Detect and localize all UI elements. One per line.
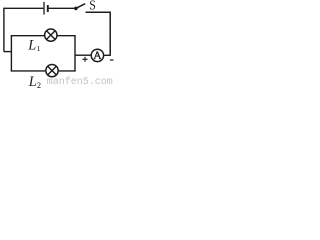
svg-text:L: L [27,38,36,54]
wire right bus [74,36,76,71]
svg-text:manfen5.com: manfen5.com [47,76,113,88]
wire branch 2 [11,70,76,72]
svg-text:L: L [28,74,37,89]
label + [82,57,87,62]
wire left vertical and top horizontal to battery [4,8,44,51]
lamp L1 [45,29,57,41]
wire switch right contact and right vertical [86,12,111,55]
svg-text:2: 2 [37,81,41,89]
switch S [74,4,85,10]
wire ammeter to right vertical [104,54,111,56]
label minus [110,59,114,61]
wire right bus to ammeter [75,54,91,56]
svg-text:1: 1 [37,44,41,53]
wire battery to switch [49,7,76,9]
battery [44,2,48,15]
wire feed to parallel buses [4,51,11,53]
ammeter A [91,49,103,61]
wire branch 1 [11,35,76,37]
wire left bus [10,36,12,71]
lamp L2 [46,64,58,76]
